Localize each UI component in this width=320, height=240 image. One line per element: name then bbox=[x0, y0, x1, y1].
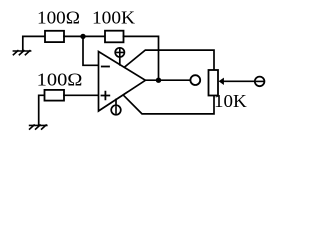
output terminal (open circle) bbox=[190, 75, 200, 85]
ground G2 (bottom-left chassis ground) bbox=[30, 125, 47, 129]
wire: ground G2 to R3 bbox=[39, 95, 45, 125]
node A junction dot bbox=[80, 34, 85, 39]
pin label minus bbox=[102, 66, 109, 68]
svg-text:100Ω: 100Ω bbox=[37, 8, 80, 28]
resistor R3 100Ohm (bottom) bbox=[45, 90, 65, 101]
negative input terminal (circled minus) bbox=[255, 77, 265, 87]
potentiometer R4 10K body bbox=[209, 70, 219, 96]
V- supply terminal (circled bar) bbox=[111, 100, 121, 115]
resistor R2 100K (feedback) bbox=[105, 31, 124, 43]
wire: node A down to op-amp inverting input bbox=[83, 36, 99, 65]
op-amp U1 triangle bbox=[99, 52, 146, 112]
svg-text:10K: 10K bbox=[214, 91, 247, 111]
potentiometer wiper arrow bbox=[219, 78, 255, 85]
svg-text:100Ω: 100Ω bbox=[37, 70, 83, 90]
wire: R1 to node A bbox=[64, 35, 105, 37]
ground G1 (top-left chassis ground) bbox=[13, 51, 30, 55]
wire: ground G1 to R1 bbox=[23, 36, 45, 51]
V+ supply terminal (circled plus) bbox=[115, 48, 124, 65]
wire: V+ pin to potentiometer top bbox=[125, 50, 214, 70]
output node junction dot bbox=[156, 78, 161, 83]
wire: R2 to output node bbox=[124, 36, 159, 80]
wire: R3 to op-amp non-inverting input bbox=[64, 94, 99, 96]
wire: op-amp output bbox=[145, 79, 190, 81]
pin label plus bbox=[102, 92, 110, 100]
svg-text:100K: 100K bbox=[92, 8, 135, 28]
wire: V- pin to potentiometer bottom bbox=[124, 95, 215, 114]
resistor R1 100Ohm (top) bbox=[45, 31, 64, 42]
